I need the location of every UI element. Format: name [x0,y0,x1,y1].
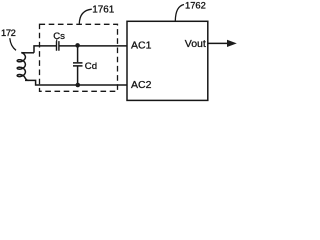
svg-text:Cs: Cs [53,31,65,42]
svg-text:172: 172 [1,27,16,38]
svg-text:Cd: Cd [85,61,97,72]
svg-text:1761: 1761 [92,4,114,15]
capacitor Cd plates [73,63,83,66]
svg-text:AC2: AC2 [131,79,152,91]
leader line for 1761 [79,9,92,24]
node: junction dot top [75,43,80,48]
capacitor Cs plates [57,41,59,51]
node: junction dot bottom [76,83,81,88]
wire: shunt branch down to Cd [77,46,79,62]
wire: Vout arrow shaft [208,42,229,44]
svg-text:AC1: AC1 [131,39,152,51]
svg-text:Vout: Vout [185,38,206,50]
wire: coil top lead [23,52,35,54]
wire: Cd to bottom net [77,66,79,85]
dashed box 1761 (matching network) [40,24,118,91]
wire: top net from inductor step to AC1 [34,46,57,53]
leader line for 1762 [175,5,184,21]
wire: coil bottom lead to step [25,80,127,85]
inductor 172 coil [17,53,28,81]
svg-text:1762: 1762 [185,0,206,10]
block U1762 [127,21,208,100]
leader tick under Cs label [56,39,58,41]
Vout arrowhead [227,40,237,47]
leader line for 172 [10,38,16,50]
wire: top net right of Cs to AC1 pin [59,45,127,47]
